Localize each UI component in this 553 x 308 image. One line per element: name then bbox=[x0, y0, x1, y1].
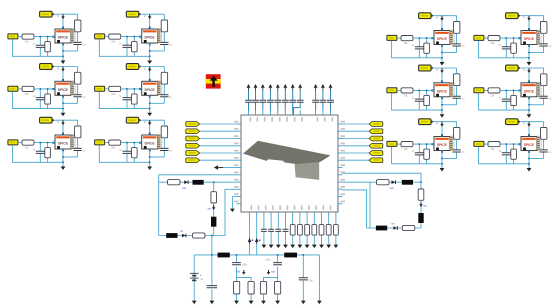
wire bbox=[528, 68, 530, 83]
ground bbox=[312, 245, 317, 249]
U1 left pin 6 bbox=[237, 159, 242, 161]
wire bbox=[418, 90, 420, 110]
U1 bottom pin 29 bbox=[270, 212, 272, 217]
resistor B1-R2 bbox=[161, 20, 167, 32]
ground B3 bbox=[147, 167, 152, 171]
capacitor C2-C1 bbox=[415, 99, 424, 101]
wire bbox=[528, 151, 530, 169]
wire bbox=[105, 142, 109, 144]
capacitor B3-C1 bbox=[123, 151, 132, 153]
junction bbox=[426, 90, 428, 92]
U1 left pin 9 bbox=[237, 181, 242, 183]
resistor D2-R1 bbox=[488, 88, 500, 93]
sensor sub-circuit A2 bbox=[8, 64, 86, 117]
wire bbox=[248, 90, 250, 110]
wire bbox=[47, 89, 49, 109]
net label R1 bbox=[369, 122, 383, 127]
wire bbox=[270, 217, 272, 245]
resistor RP4 bbox=[275, 281, 281, 294]
wire bbox=[55, 119, 78, 121]
U1 right pin 17 bbox=[338, 152, 343, 154]
wire bbox=[413, 37, 434, 39]
wire bbox=[441, 68, 443, 83]
junction bbox=[528, 158, 530, 160]
capacitor A1-C2 bbox=[73, 42, 81, 44]
svg-text:SPICE: SPICE bbox=[144, 142, 155, 146]
sensor chip B2-U bbox=[139, 79, 162, 98]
U1 3D package top face bbox=[243, 141, 330, 167]
resistor B3-R1 bbox=[109, 140, 121, 145]
junction bbox=[62, 108, 64, 110]
wire bbox=[343, 159, 370, 161]
wire bbox=[441, 97, 443, 115]
sensor sub-circuit B2 bbox=[95, 64, 173, 117]
wire bbox=[528, 97, 530, 115]
wire bbox=[343, 130, 370, 132]
capacitor A3-C1 bbox=[36, 151, 45, 153]
supply arrow L bbox=[213, 205, 215, 207]
U1 top pin 49 bbox=[322, 111, 324, 116]
wire bbox=[121, 142, 142, 144]
net label D1-IN bbox=[474, 35, 484, 40]
wire bbox=[306, 217, 308, 245]
wire bbox=[442, 104, 457, 106]
wire bbox=[62, 67, 64, 82]
resistor C2-R2 bbox=[454, 74, 460, 86]
capacitor CT5 bbox=[274, 100, 281, 102]
U1 right pin 19 bbox=[338, 167, 343, 169]
junction bbox=[506, 37, 508, 39]
wire bbox=[484, 89, 488, 91]
capacitor A2-C2 bbox=[73, 95, 81, 97]
resistor RB3 bbox=[305, 225, 310, 236]
resistor RB2 bbox=[298, 225, 303, 236]
power arrow D1 bbox=[528, 16, 530, 18]
wire bbox=[213, 227, 215, 236]
wire bbox=[55, 13, 78, 15]
junction bbox=[47, 88, 49, 90]
wire bbox=[163, 67, 165, 104]
wire bbox=[63, 156, 78, 158]
net label D2-IN bbox=[474, 88, 484, 93]
wire bbox=[200, 159, 237, 161]
resistor D2-R3 bbox=[511, 95, 517, 105]
power arrow D2 bbox=[528, 68, 530, 70]
ground bbox=[269, 245, 274, 249]
capacitor CT11 bbox=[327, 100, 334, 102]
power flag PT3 bbox=[261, 84, 265, 88]
U1 top pin 48 bbox=[315, 111, 317, 116]
U1 left pin 8 bbox=[237, 174, 242, 176]
junction bbox=[419, 143, 421, 145]
U1 bottom pin 38 bbox=[335, 212, 337, 217]
svg-text:xtal: xtal bbox=[390, 187, 394, 190]
svg-text:xtal: xtal bbox=[182, 187, 186, 190]
wire bbox=[500, 89, 521, 91]
power arrow B2 bbox=[149, 67, 151, 69]
resistor RR2 bbox=[418, 189, 424, 200]
U1 bottom pin 32 bbox=[292, 212, 294, 217]
sensor chip D1-U bbox=[518, 28, 541, 47]
junction bbox=[441, 52, 443, 54]
resistor RR3 bbox=[402, 225, 415, 230]
capacitor B2-C1 bbox=[123, 98, 132, 100]
wire bbox=[441, 45, 443, 63]
junction bbox=[441, 104, 443, 106]
ground bbox=[210, 301, 215, 305]
supply arrow G1 bbox=[243, 270, 245, 272]
resistor RB6 bbox=[326, 225, 331, 236]
capacitor C3-C2 bbox=[452, 150, 460, 152]
U1 top pin 44 bbox=[277, 111, 279, 116]
junction bbox=[134, 36, 136, 38]
junction bbox=[62, 103, 64, 105]
junction bbox=[419, 90, 421, 92]
wire bbox=[528, 122, 530, 137]
wire bbox=[47, 37, 49, 57]
wire bbox=[99, 145, 149, 162]
net marker 1 bbox=[248, 238, 252, 242]
net label A3-TOP bbox=[40, 117, 52, 123]
inductor FB1 bbox=[218, 253, 230, 258]
sensor chip C2-U bbox=[431, 80, 454, 99]
resistor D2-R2 bbox=[541, 74, 547, 86]
wire bbox=[529, 158, 544, 160]
U1 left pin 4 bbox=[237, 145, 242, 147]
ground D2 bbox=[527, 114, 532, 118]
wire bbox=[292, 90, 294, 110]
capacitor B2-C2 bbox=[160, 95, 168, 97]
wire bbox=[500, 37, 521, 39]
svg-text:100n: 100n bbox=[242, 264, 248, 267]
junction bbox=[528, 163, 530, 165]
U1 bottom pin 31 bbox=[285, 212, 287, 217]
wire bbox=[62, 43, 64, 61]
junction bbox=[513, 37, 515, 39]
wire bbox=[121, 36, 142, 38]
junction bbox=[134, 142, 136, 144]
svg-text:SPICE: SPICE bbox=[524, 143, 535, 147]
inductor LL1 bbox=[193, 180, 204, 185]
resistor RB4 bbox=[312, 225, 317, 236]
supply arrow G2 bbox=[268, 270, 270, 272]
wire bbox=[262, 90, 264, 110]
wire bbox=[299, 217, 301, 245]
net label A1-IN bbox=[8, 34, 18, 39]
wire bbox=[18, 88, 22, 90]
power flag PT10 bbox=[321, 84, 325, 88]
resistor A2-R2 bbox=[75, 72, 81, 84]
wire bbox=[211, 236, 213, 301]
junction bbox=[528, 104, 530, 106]
junction bbox=[506, 143, 508, 145]
wire bbox=[159, 175, 237, 236]
resistor LR1 bbox=[168, 180, 181, 185]
resistor D3-R1 bbox=[488, 142, 500, 147]
wire bbox=[441, 151, 443, 169]
wire bbox=[63, 102, 78, 104]
capacitor C3-C1 bbox=[415, 153, 424, 155]
wire bbox=[277, 90, 279, 110]
wire bbox=[500, 143, 521, 145]
wire bbox=[456, 122, 458, 159]
wire bbox=[420, 200, 422, 213]
junction bbox=[134, 88, 136, 90]
wire bbox=[529, 104, 544, 106]
sensor chip A1-U bbox=[52, 27, 75, 46]
junction bbox=[47, 36, 49, 38]
capacitor C1-C2 bbox=[452, 44, 460, 46]
resistor B3-R3 bbox=[132, 148, 138, 158]
wire bbox=[133, 89, 135, 109]
junction bbox=[419, 37, 421, 39]
junction bbox=[420, 181, 422, 183]
resistor C3-R3 bbox=[424, 149, 430, 159]
resistor D1-R3 bbox=[511, 43, 517, 53]
capacitor CT7 bbox=[289, 100, 296, 102]
wire bbox=[77, 120, 79, 157]
inductor FB2 bbox=[284, 253, 297, 258]
junction bbox=[441, 158, 443, 160]
resistor C1-R2 bbox=[454, 22, 460, 34]
wire bbox=[543, 16, 545, 53]
wire bbox=[343, 152, 370, 154]
wire bbox=[62, 95, 64, 113]
power arrow B3 bbox=[149, 120, 151, 122]
net label D3-TOP bbox=[506, 119, 518, 125]
ground A2 bbox=[61, 113, 66, 117]
wire bbox=[434, 15, 457, 17]
wire bbox=[159, 181, 168, 183]
svg-text:SPICE: SPICE bbox=[437, 37, 448, 41]
U1 right pin 23 bbox=[338, 196, 343, 198]
U1 top pin 47 bbox=[299, 111, 301, 116]
capacitor CT2 bbox=[252, 100, 259, 102]
ground bbox=[261, 301, 266, 305]
U1 right pin 18 bbox=[338, 159, 343, 161]
power flag PT1 bbox=[247, 84, 251, 88]
capacitor CT10 bbox=[320, 100, 327, 102]
wire bbox=[213, 203, 215, 217]
capacitor CT3 bbox=[259, 100, 266, 102]
wire bbox=[441, 122, 443, 137]
wire bbox=[543, 68, 545, 105]
wire bbox=[321, 217, 323, 245]
ground bbox=[283, 245, 288, 249]
wire bbox=[418, 144, 420, 164]
wire bbox=[255, 90, 257, 110]
capacitor CB3 bbox=[275, 229, 281, 231]
wire bbox=[484, 143, 488, 145]
power arrow C3 bbox=[441, 122, 443, 124]
wire bbox=[133, 37, 135, 57]
resistor B1-R3 bbox=[132, 42, 138, 52]
junction bbox=[40, 88, 42, 90]
net label L6 bbox=[186, 158, 200, 163]
power arrow A2 bbox=[62, 67, 64, 69]
wire bbox=[34, 142, 55, 144]
wire bbox=[150, 50, 165, 52]
capacitor CT4 bbox=[267, 100, 274, 102]
resistor A3-R1 bbox=[22, 140, 34, 145]
U1 right pin 22 bbox=[338, 188, 343, 190]
wire bbox=[529, 52, 544, 54]
wire bbox=[442, 158, 457, 160]
net label B1-TOP bbox=[126, 11, 138, 17]
U1 top pin 43 bbox=[269, 111, 271, 116]
resistor A1-R1 bbox=[22, 34, 34, 39]
net label L5 bbox=[186, 151, 200, 156]
sensor chip A2-U bbox=[52, 79, 75, 98]
wire bbox=[420, 223, 422, 228]
net label D2-TOP bbox=[506, 65, 518, 71]
ground bbox=[317, 301, 322, 305]
capacitor D2-C1 bbox=[502, 99, 511, 101]
U1 top pin 46 bbox=[292, 111, 294, 116]
wire bbox=[213, 182, 215, 192]
wire bbox=[343, 173, 422, 189]
net label C1-TOP bbox=[419, 13, 431, 19]
wire bbox=[513, 90, 515, 110]
wire bbox=[18, 36, 22, 38]
U1 bottom pin 33 bbox=[299, 212, 301, 217]
ground bbox=[334, 245, 339, 249]
ground C3 bbox=[440, 168, 445, 172]
junction bbox=[211, 254, 213, 256]
U1 bottom pin 36 bbox=[321, 212, 323, 217]
resistor C1-R3 bbox=[424, 43, 430, 53]
wire bbox=[528, 45, 530, 63]
wire bbox=[39, 89, 41, 109]
junction bbox=[513, 90, 515, 92]
sensor chip C1-U bbox=[431, 28, 454, 47]
wire bbox=[505, 90, 507, 110]
svg-text:100n: 100n bbox=[265, 258, 271, 261]
sensor sub-circuit D1 bbox=[474, 13, 552, 66]
wire bbox=[292, 217, 294, 245]
junction bbox=[149, 162, 151, 164]
wire bbox=[397, 37, 401, 39]
svg-text:vdd: vdd bbox=[271, 271, 276, 274]
wire bbox=[302, 255, 304, 301]
net label C2-TOP bbox=[419, 65, 431, 71]
capacitor CP4 bbox=[299, 278, 308, 280]
junction bbox=[149, 56, 151, 58]
wire bbox=[370, 181, 377, 183]
ground B2 bbox=[147, 113, 152, 117]
wire bbox=[479, 147, 529, 164]
wire bbox=[149, 43, 151, 61]
U1 right pin 16 bbox=[338, 145, 343, 147]
wire bbox=[343, 182, 371, 228]
ground A1 bbox=[61, 61, 66, 65]
U1 bottom pin 30 bbox=[277, 212, 279, 217]
wire bbox=[264, 294, 278, 301]
ground bbox=[249, 301, 254, 305]
wire bbox=[200, 123, 237, 125]
resistor A3-R3 bbox=[45, 148, 51, 158]
U1 right pin 20 bbox=[338, 174, 343, 176]
inductor RL2 bbox=[418, 213, 423, 223]
wire bbox=[528, 16, 530, 31]
wire bbox=[63, 50, 78, 52]
U1 top pin 50 bbox=[330, 111, 332, 116]
resistor RP1 bbox=[234, 281, 240, 294]
U1 bottom pin 35 bbox=[313, 212, 315, 217]
junction bbox=[47, 142, 49, 144]
resistor B2-R3 bbox=[132, 94, 138, 104]
ground bbox=[319, 245, 324, 249]
inductor RL1 bbox=[402, 180, 413, 185]
capacitor CT6 bbox=[282, 100, 289, 102]
U1 top pin 45 bbox=[284, 111, 286, 116]
sensor sub-circuit B1 bbox=[95, 11, 173, 64]
capacitor CB2 bbox=[268, 229, 274, 231]
sensor chip B1-U bbox=[139, 27, 162, 46]
net label B3-IN bbox=[95, 140, 105, 145]
wire bbox=[126, 143, 128, 163]
wire bbox=[284, 90, 286, 110]
power flag PT7 bbox=[291, 84, 295, 88]
net label R5 bbox=[369, 151, 383, 156]
sensor sub-circuit A1 bbox=[8, 11, 86, 64]
wire bbox=[249, 217, 251, 255]
capacitor A2-C1 bbox=[36, 98, 45, 100]
ground bbox=[290, 245, 295, 249]
svg-text:SPICE: SPICE bbox=[437, 143, 448, 147]
junction bbox=[149, 108, 151, 110]
wire bbox=[505, 144, 507, 164]
net label B1-IN bbox=[95, 34, 105, 39]
capacitor B1-C2 bbox=[160, 42, 168, 44]
wire bbox=[397, 89, 401, 91]
net label L3 bbox=[186, 136, 200, 141]
junction bbox=[149, 156, 151, 158]
ground bbox=[326, 245, 331, 249]
sensor sub-circuit A3 bbox=[8, 117, 86, 170]
U1 left pin 2 bbox=[237, 130, 242, 132]
wire bbox=[426, 144, 428, 164]
resistor B2-R2 bbox=[161, 72, 167, 84]
wire bbox=[200, 130, 237, 132]
wire bbox=[236, 188, 238, 190]
wire bbox=[434, 121, 457, 123]
wire bbox=[456, 68, 458, 105]
supply arrow R bbox=[420, 202, 422, 204]
U1 3D package front face bbox=[295, 162, 320, 180]
wire bbox=[294, 90, 301, 115]
wire bbox=[200, 152, 237, 154]
wire bbox=[159, 189, 237, 235]
svg-text:SPICE: SPICE bbox=[58, 88, 69, 92]
wire bbox=[237, 255, 252, 282]
svg-text:3V: 3V bbox=[200, 278, 203, 281]
resistor B2-R1 bbox=[109, 86, 121, 91]
capacitor B1-C1 bbox=[123, 45, 132, 47]
wire bbox=[121, 88, 142, 90]
wire bbox=[62, 120, 64, 135]
battery B1 bbox=[190, 273, 199, 278]
wire bbox=[335, 217, 337, 245]
ground bbox=[275, 301, 280, 305]
input arrow terminal bbox=[214, 165, 218, 169]
wire bbox=[34, 36, 55, 38]
sensor chip D3-U bbox=[518, 134, 541, 153]
junction bbox=[426, 37, 428, 39]
wire bbox=[434, 67, 457, 69]
svg-text:+: + bbox=[200, 273, 202, 277]
U1 bottom pin 26 bbox=[249, 212, 251, 217]
